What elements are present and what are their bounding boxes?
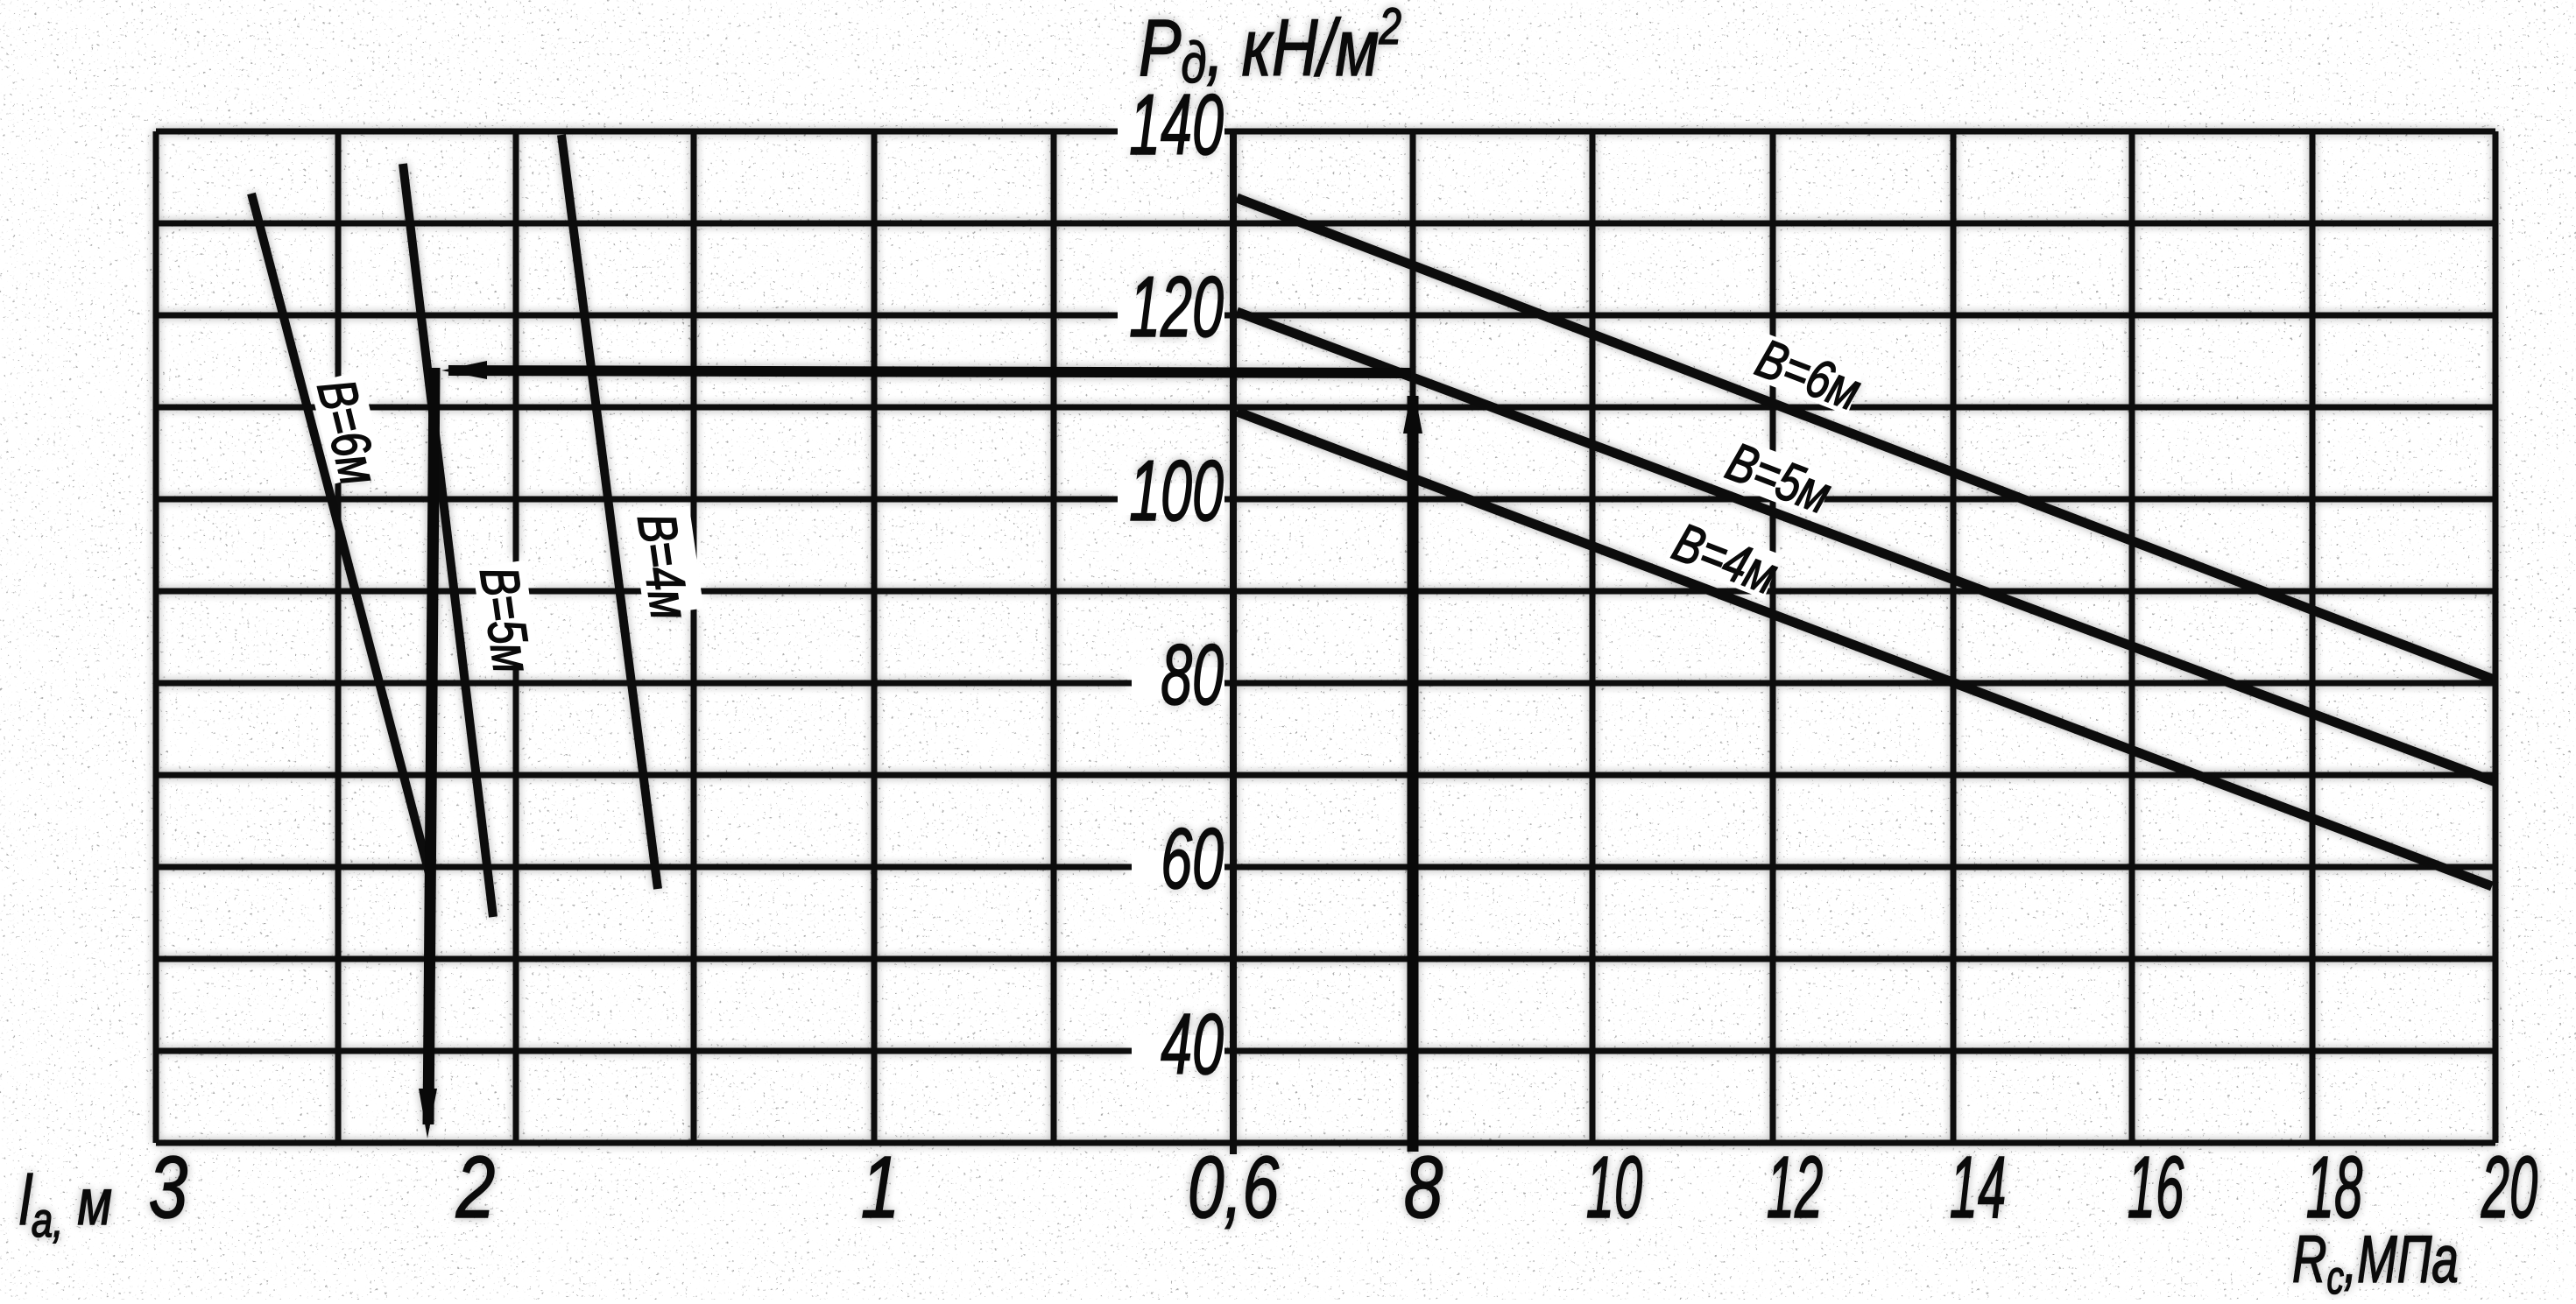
- x-axis label 20: [2481, 1139, 2537, 1237]
- svg-text:12: 12: [1767, 1139, 1824, 1237]
- svg-text:20: 20: [2481, 1139, 2537, 1237]
- example vertical line at Rc=8: [1408, 396, 1419, 1152]
- svg-text:60: 60: [1161, 810, 1224, 906]
- x-axis label 2: [455, 1139, 495, 1237]
- svg-text:Rc,МПа: Rc,МПа: [2292, 1223, 2459, 1300]
- y-axis label 60: [1161, 810, 1224, 906]
- svg-text:10: 10: [1586, 1139, 1643, 1237]
- example left arrowhead: [441, 361, 487, 379]
- x-axis label 18: [2306, 1139, 2363, 1237]
- y-axis label 120: [1129, 258, 1224, 355]
- y-axis label 100: [1129, 442, 1224, 539]
- label halo right B=4m: [1664, 517, 1781, 599]
- example descending line to la axis: [428, 368, 434, 1124]
- x-axis label 0,6: [1188, 1138, 1280, 1236]
- svg-text:80: 80: [1161, 626, 1224, 722]
- svg-text:120: 120: [1129, 258, 1224, 355]
- svg-text:100: 100: [1129, 442, 1224, 539]
- gaps in grid for y-axis value labels: [1118, 116, 1224, 1067]
- x-axis label 16: [2128, 1139, 2184, 1237]
- label halo left B=4m: [631, 506, 704, 617]
- label left B=5m: [469, 563, 543, 676]
- example down arrowhead: [419, 1089, 437, 1138]
- x-axis label 12: [1767, 1139, 1824, 1237]
- x-axis label 10: [1586, 1139, 1643, 1237]
- label halo left B=6m: [309, 371, 385, 484]
- left line B=6m: [251, 194, 431, 880]
- x-axis label 3: [149, 1139, 187, 1237]
- x-axis label 1: [861, 1139, 900, 1237]
- y-axis label 40: [1161, 996, 1224, 1092]
- label right B=4m: [1665, 511, 1785, 606]
- svg-text:1: 1: [861, 1139, 900, 1237]
- label left B=4m: [626, 510, 701, 623]
- y-axis label 140: [1129, 76, 1224, 173]
- svg-text:8: 8: [1404, 1139, 1443, 1237]
- svg-text:40: 40: [1161, 996, 1224, 1092]
- y-axis label 80: [1161, 626, 1224, 722]
- svg-text:2: 2: [455, 1139, 495, 1237]
- svg-text:3: 3: [149, 1139, 187, 1237]
- label left B=6m: [306, 374, 390, 491]
- svg-text:16: 16: [2128, 1139, 2184, 1237]
- svg-text:0,6: 0,6: [1188, 1138, 1280, 1236]
- x-axis label 14: [1950, 1139, 2007, 1237]
- right curve B=5m: [1237, 312, 2495, 782]
- axis title Rc, MPa: [2292, 1223, 2459, 1303]
- svg-text:Рд, кН/м2: Рд, кН/м2: [1139, 0, 1401, 95]
- label halo right B=5m: [1718, 436, 1834, 518]
- label right B=6m: [1748, 328, 1868, 422]
- example up arrowhead: [1403, 383, 1422, 433]
- central Pd axis: [1230, 131, 1237, 1154]
- label halo left B=5m: [473, 560, 540, 670]
- left line B=5m: [403, 164, 493, 917]
- x-axis label 8: [1404, 1139, 1443, 1237]
- right curve B=4m: [1237, 412, 2492, 886]
- axis title Pd kN/m2: [1139, 0, 1401, 95]
- example horizontal line: [448, 370, 1411, 373]
- svg-text:14: 14: [1950, 1139, 2007, 1237]
- grid horizontal lines: [156, 131, 2495, 1143]
- grid vertical lines: [156, 131, 2495, 1143]
- left line B=4m: [561, 135, 658, 889]
- axis title la, m: [19, 1162, 112, 1248]
- label halo right B=6m: [1747, 333, 1864, 415]
- right curve B=6m: [1237, 198, 2496, 680]
- label right B=5m: [1719, 431, 1838, 525]
